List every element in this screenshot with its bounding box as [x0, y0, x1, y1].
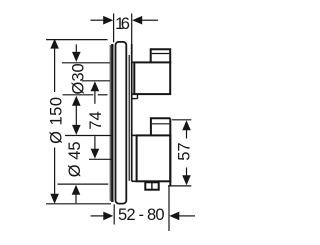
wire upper knob bottom edge stub [132, 93, 135, 95]
node upper knob back cap [151, 49, 171, 63]
wire dim-74 bottom extension line [89, 158, 111, 160]
svg-text:Ø 150: Ø 150 [47, 96, 65, 143]
svg-text:57: 57 [176, 142, 194, 160]
node lower knob bottom tab [145, 182, 158, 189]
node dim-57 top arrowhead [182, 120, 191, 130]
wire lower knob bottom tab divider [151, 182, 153, 189]
wire knob neck left line full [131, 44, 133, 181]
node dim-30 lower outside arrowhead [72, 96, 81, 106]
node dim-16 right arrowhead [132, 16, 142, 25]
wire dim-16 right extension line [131, 14, 133, 45]
node dim-74 top arrowhead [91, 81, 100, 91]
wire upper knob top edge stub [132, 61, 135, 63]
node escutcheon wall flange thick edge [111, 44, 113, 202]
node dim-16 left arrowhead [103, 16, 113, 25]
wire dim-74 line upper [94, 90, 96, 104]
svg-text:74: 74 [87, 111, 105, 129]
wire dim-57 top extension line [172, 119, 191, 121]
wire dim-5280 left tail [91, 215, 105, 217]
wire dim-30 bottom extension line left part [63, 94, 94, 96]
wire lower knob front face extended [169, 118, 171, 186]
svg-text:52 - 80: 52 - 80 [118, 206, 164, 224]
node upper knob body [134, 62, 170, 94]
wire dim-16 left tail [90, 19, 104, 21]
wire dim-45 bottom extension line [58, 183, 109, 185]
wire dim-45 lower outside arrow tail [75, 195, 77, 204]
wire dim-74 top extension line [82, 80, 110, 82]
wire dim-150 line upper [54, 48, 56, 92]
wire lower knob back cap inner line [152, 123, 170, 125]
wire dim-150 bottom extension line [46, 203, 111, 205]
node dim-45 lower outside arrowhead [72, 185, 81, 195]
node dim-45 upper outside arrowhead [72, 125, 81, 135]
node dim-57 bottom arrowhead [182, 175, 191, 185]
wire lower knob top edge stub [132, 134, 137, 136]
wire dim-150 line lower [54, 148, 56, 196]
wire dim-30 upper outside arrow tail [75, 44, 77, 53]
node lower knob body [137, 135, 171, 181]
wire dim-16 left extension line [113, 14, 115, 43]
wire escutcheon back thin line [109, 45, 111, 201]
wire dim-5280 left extension line [113, 204, 115, 224]
wire dim-30 bottom extension line right part [98, 94, 108, 96]
wire dim-74 line lower [94, 136, 96, 150]
wire dim-57 bottom extension line [168, 185, 191, 187]
wire dim-45 top extension line [65, 135, 111, 137]
wire upper knob back cap inner line [152, 53, 170, 55]
wire dim-57 line upper [186, 130, 188, 139]
node dim-30 upper outside arrowhead [72, 52, 81, 62]
node dim-5280 right arrowhead [169, 212, 179, 221]
wire lower knob bottom edge stub [132, 180, 137, 182]
node escutcheon plate side profile [116, 42, 127, 204]
node dim-5280 left arrowhead [103, 212, 113, 221]
wire shared outside arrows line between dim-30 and dim-45 [75, 105, 77, 126]
wire dim-5280 right extension line [168, 186, 170, 231]
wire upper knob neck right [137, 94, 139, 99]
node dim-150 top arrowhead [50, 39, 59, 49]
wire upper knob neck bottom [132, 98, 138, 100]
wire dim-30 top extension line [62, 62, 110, 64]
wire dim-150 top extension line [46, 39, 108, 41]
wire dim-5280 right tail [179, 215, 195, 217]
node dim-74 bottom arrowhead [91, 149, 100, 159]
wire valve sleeve back line [128, 55, 130, 181]
node lower knob back cap [151, 118, 170, 135]
wire dim-16 right tail [142, 19, 158, 21]
wire dim-57 line lower [186, 168, 188, 177]
node dim-150 bottom arrowhead [50, 194, 59, 204]
svg-text:Ø30: Ø30 [69, 63, 87, 94]
svg-text:Ø 45: Ø 45 [66, 141, 84, 177]
